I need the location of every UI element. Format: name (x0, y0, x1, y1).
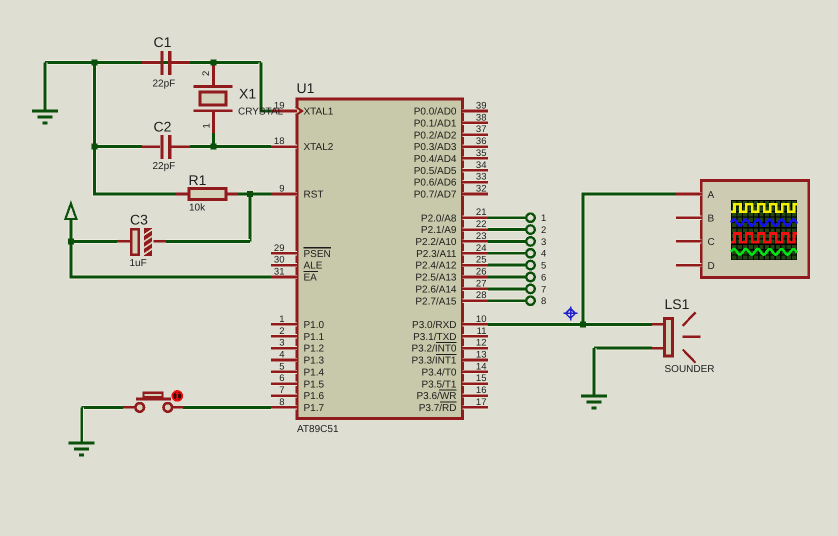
wire P2.5 (488, 275, 526, 280)
svg-text:24: 24 (476, 243, 487, 254)
svg-text:P3.0/RXD: P3.0/RXD (412, 320, 456, 331)
ground GND1 (32, 111, 58, 123)
pin 35 (P0.4) stub (463, 156, 489, 160)
scope trace channel D (green wave) (731, 249, 797, 255)
crystal X1 (194, 63, 233, 147)
pin 8 (P1.7) stub (271, 405, 297, 409)
svg-text:C2: C2 (154, 119, 172, 135)
svg-text:XTAL2: XTAL2 (304, 142, 334, 153)
resistor R1 (176, 189, 238, 200)
svg-text:10k: 10k (189, 203, 206, 214)
svg-text:SOUNDER: SOUNDER (665, 364, 715, 375)
svg-text:21: 21 (476, 207, 487, 218)
capacitor C3 (117, 228, 166, 256)
wire P2.0 (488, 215, 526, 220)
wire to EA (71, 241, 272, 277)
svg-text:35: 35 (476, 148, 487, 159)
pin 14 (P3.4) stub (463, 370, 489, 374)
node C1-left junction (92, 60, 98, 66)
svg-text:CRYSTAL: CRYSTAL (238, 107, 284, 118)
svg-text:P2.2/A10: P2.2/A10 (415, 237, 457, 248)
IC U1 AT89C51 body (297, 99, 463, 419)
pin 39 (P0.0) stub (463, 109, 489, 113)
svg-text:P0.6/AD6: P0.6/AD6 (414, 178, 457, 189)
svg-text:U1: U1 (297, 80, 315, 96)
svg-text:34: 34 (476, 160, 487, 171)
pin 31 (EA) stub (271, 275, 297, 279)
svg-text:18: 18 (274, 136, 285, 147)
svg-text:17: 17 (476, 397, 487, 408)
pin 26 (P2.5) stub (463, 275, 489, 279)
svg-text:3: 3 (279, 338, 284, 349)
scope pin A stub (676, 192, 701, 196)
scope trace channel B (blue wave) (731, 219, 797, 225)
svg-text:25: 25 (476, 255, 487, 266)
terminal circle 1 (526, 214, 534, 222)
capacitor C2 (142, 135, 190, 159)
svg-text:32: 32 (476, 184, 487, 195)
pin 17 (P3.7) stub (463, 405, 489, 409)
svg-text:26: 26 (476, 267, 487, 278)
svg-text:30: 30 (274, 255, 285, 266)
svg-text:36: 36 (476, 136, 487, 147)
wire C2 to XTAL2 (190, 144, 272, 149)
wire P2.4 (488, 263, 526, 268)
svg-text:P3.5/T1: P3.5/T1 (421, 379, 456, 390)
svg-text:7: 7 (279, 385, 284, 396)
pin 7 (P1.6) stub (271, 394, 297, 398)
svg-text:13: 13 (476, 350, 487, 361)
terminal circle 5 (526, 261, 534, 269)
svg-text:AT89C51: AT89C51 (297, 424, 339, 435)
ground GND3 (581, 396, 607, 408)
pin 34 (P0.5) stub (463, 168, 489, 172)
wire C2 left (95, 144, 142, 149)
svg-text:27: 27 (476, 278, 487, 289)
power terminal arrow (65, 204, 76, 220)
wire P2.7 (488, 298, 526, 303)
svg-text:P0.0/AD0: P0.0/AD0 (414, 107, 457, 118)
svg-text:9: 9 (279, 184, 284, 195)
node C2 junction (92, 144, 98, 150)
svg-text:P1.4: P1.4 (304, 368, 325, 379)
svg-text:16: 16 (476, 385, 487, 396)
pin 29 (PSEN) stub (271, 251, 297, 255)
svg-text:B: B (708, 214, 715, 225)
svg-text:D: D (708, 261, 715, 272)
pin 36 (P0.3) stub (463, 145, 489, 149)
pin 18 (XTAL2) stub (271, 145, 297, 149)
svg-text:P3.6/WR: P3.6/WR (416, 391, 456, 402)
pin 38 (P0.1) stub (463, 121, 489, 125)
terminal circle 2 (526, 225, 534, 233)
wire P2.1 (488, 227, 526, 232)
wire left vertical to R1 (95, 63, 176, 195)
wire P2.6 (488, 286, 526, 291)
terminal circle 3 (526, 237, 534, 245)
pin 4 (P1.3) stub (271, 358, 297, 362)
pin 9 (RST) stub (271, 192, 297, 196)
pin 15 (P3.5) stub (463, 382, 489, 386)
svg-text:P1.3: P1.3 (304, 356, 325, 367)
svg-text:P1.5: P1.5 (304, 379, 325, 390)
svg-text:22pF: 22pF (153, 161, 176, 172)
svg-text:4: 4 (541, 249, 546, 260)
svg-text:P1.6: P1.6 (304, 391, 325, 402)
svg-text:1: 1 (202, 123, 213, 128)
svg-text:P0.2/AD2: P0.2/AD2 (414, 130, 457, 141)
svg-text:P3.1/TXD: P3.1/TXD (413, 332, 456, 343)
svg-text:ALE: ALE (304, 261, 323, 272)
svg-text:P2.0/A8: P2.0/A8 (421, 213, 457, 224)
pin 5 (P1.4) stub (271, 370, 297, 374)
svg-text:C: C (708, 237, 715, 248)
svg-text:C1: C1 (154, 34, 172, 50)
wire P2.2 (488, 239, 526, 244)
terminal circle 8 (526, 297, 534, 305)
pin 6 (P1.5) stub (271, 382, 297, 386)
svg-text:7: 7 (541, 284, 546, 295)
terminal circle 4 (526, 249, 534, 257)
pin 32 (P0.7) stub (463, 192, 489, 196)
svg-text:22: 22 (476, 219, 487, 230)
scope pin B stub (676, 216, 701, 220)
svg-text:2: 2 (279, 326, 284, 337)
svg-text:P0.7/AD7: P0.7/AD7 (414, 190, 457, 201)
svg-text:P2.4/A12: P2.4/A12 (415, 261, 457, 272)
svg-text:P2.5/A13: P2.5/A13 (415, 273, 457, 284)
wire R1 to RST (238, 192, 272, 197)
svg-text:P2.6/A14: P2.6/A14 (415, 285, 457, 296)
scope pin D stub (676, 263, 701, 267)
node C3 junction (68, 238, 74, 244)
svg-text:10: 10 (476, 314, 487, 325)
wire from power arrow (69, 219, 74, 241)
pin 21 (P2.0) stub (463, 216, 489, 220)
svg-text:38: 38 (476, 112, 487, 123)
svg-text:28: 28 (476, 290, 487, 301)
push button (123, 393, 183, 412)
pin 16 (P3.6) stub (463, 394, 489, 398)
pin 12 (P3.2) stub (463, 346, 489, 350)
node crystal pin2 junction (211, 60, 217, 66)
svg-text:PSEN: PSEN (304, 249, 331, 260)
svg-text:23: 23 (476, 231, 487, 242)
terminal circle 7 (526, 285, 534, 293)
svg-text:RST: RST (304, 190, 324, 201)
svg-text:8: 8 (541, 296, 546, 307)
wire to ground GND3 (592, 348, 597, 396)
pin 25 (P2.4) stub (463, 263, 489, 267)
pin 19 (XTAL1) stub (271, 109, 297, 113)
terminal circle 6 (526, 273, 534, 281)
svg-text:P0.5/AD5: P0.5/AD5 (414, 166, 457, 177)
svg-text:P3.3/INT1: P3.3/INT1 (411, 356, 456, 367)
pin 3 (P1.2) stub (271, 346, 297, 350)
wire button to P1.7 (183, 405, 272, 410)
svg-text:P0.3/AD3: P0.3/AD3 (414, 142, 457, 153)
pin 11 (P3.1) stub (463, 334, 489, 338)
svg-text:A: A (708, 190, 715, 201)
wire to XTAL1 (261, 63, 272, 112)
svg-text:1: 1 (541, 213, 546, 224)
svg-text:11: 11 (477, 326, 487, 337)
pin 23 (P2.2) stub (463, 239, 489, 243)
svg-text:22pF: 22pF (153, 79, 176, 90)
svg-text:31: 31 (274, 267, 285, 278)
node scope junction (580, 321, 586, 327)
pin 22 (P2.1) stub (463, 228, 489, 232)
pin 1 (P1.0) stub (271, 322, 297, 326)
pin 10 (P3.0) stub (463, 322, 489, 326)
wire sounder bottom (594, 346, 652, 351)
svg-text:P1.1: P1.1 (304, 332, 325, 343)
pin 37 (P0.2) stub (463, 133, 489, 137)
scope screen (731, 200, 797, 260)
pin 33 (P0.6) stub (463, 180, 489, 184)
svg-text:P1.2: P1.2 (304, 344, 325, 355)
svg-text:6: 6 (541, 272, 546, 283)
pin 27 (P2.6) stub (463, 287, 489, 291)
scope trace channel A (yellow square wave) (731, 204, 797, 211)
scope trace channel C (red square wave) (731, 234, 797, 243)
sounder LS1 (652, 312, 701, 362)
svg-text:1uF: 1uF (130, 258, 147, 269)
pin 28 (P2.7) stub (463, 299, 489, 303)
svg-text:P1.7: P1.7 (304, 403, 325, 414)
svg-text:P2.3/A11: P2.3/A11 (416, 249, 457, 260)
svg-text:33: 33 (476, 172, 487, 183)
wire C3 right (166, 239, 250, 244)
svg-text:XTAL1: XTAL1 (304, 107, 334, 118)
pin 2 (P1.1) stub (271, 334, 297, 338)
svg-text:12: 12 (476, 338, 487, 349)
svg-text:5: 5 (541, 261, 546, 272)
svg-text:2: 2 (541, 225, 546, 236)
wire up to scope A (583, 194, 676, 324)
wire C1 row (45, 60, 261, 65)
scope pin C stub (676, 239, 701, 243)
svg-text:P3.7/RD: P3.7/RD (419, 403, 457, 414)
svg-text:C3: C3 (130, 212, 148, 228)
pin 24 (P2.3) stub (463, 251, 489, 255)
svg-text:P3.4/T0: P3.4/T0 (421, 368, 456, 379)
svg-text:R1: R1 (189, 172, 207, 188)
wire to ground GND2 (79, 407, 84, 443)
svg-text:2: 2 (201, 71, 212, 76)
XTAL1 clock arrow (296, 107, 303, 116)
svg-text:4: 4 (279, 350, 284, 361)
svg-text:1: 1 (279, 314, 284, 325)
capacitor C1 (142, 51, 190, 75)
svg-text:39: 39 (476, 101, 487, 112)
ground GND2 (69, 443, 95, 455)
svg-text:P2.7/A15: P2.7/A15 (415, 296, 457, 307)
wire button left (82, 405, 123, 410)
svg-text:15: 15 (476, 373, 487, 384)
node RST junction (247, 191, 253, 197)
oscilloscope body (701, 181, 809, 278)
wire to ground GND1 (43, 63, 48, 112)
svg-text:P3.2/INT0: P3.2/INT0 (411, 344, 456, 355)
blue origin marker (564, 306, 578, 320)
svg-text:3: 3 (541, 237, 546, 248)
svg-text:29: 29 (274, 243, 285, 254)
svg-text:P0.4/AD4: P0.4/AD4 (414, 154, 457, 165)
wire P2.3 (488, 251, 526, 256)
node crystal pin1 junction (211, 144, 217, 150)
svg-text:14: 14 (476, 361, 487, 372)
svg-text:6: 6 (279, 373, 284, 384)
svg-text:8: 8 (279, 397, 284, 408)
button actuator marker (172, 390, 184, 402)
svg-text:P0.1/AD1: P0.1/AD1 (414, 119, 457, 130)
wire C3 left (71, 239, 117, 244)
pin 30 (ALE) stub (271, 263, 297, 267)
pin 13 (P3.3) stub (463, 358, 489, 362)
wire P3.0 to sounder (488, 322, 652, 327)
wire RST down to C3 row (247, 194, 252, 241)
svg-text:P2.1/A9: P2.1/A9 (421, 225, 457, 236)
svg-text:37: 37 (476, 124, 487, 135)
svg-text:LS1: LS1 (665, 296, 690, 312)
svg-text:5: 5 (279, 361, 284, 372)
svg-text:P1.0: P1.0 (304, 320, 325, 331)
svg-text:EA: EA (304, 273, 318, 284)
svg-text:X1: X1 (239, 86, 256, 102)
